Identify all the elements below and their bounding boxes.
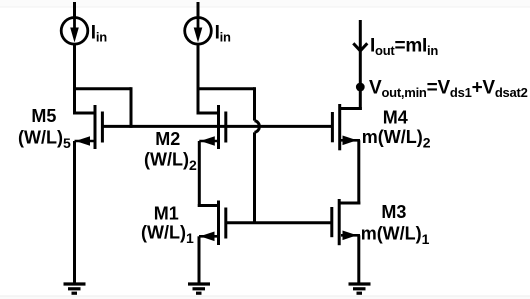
svg-text:(W/L)5: (W/L)5	[18, 128, 71, 152]
svg-text:M2: M2	[155, 129, 180, 149]
wire: M3 source down to ground	[357, 235, 360, 284]
current source I_in #2 (circle)	[185, 18, 212, 45]
transistor M2 channel bar	[217, 105, 220, 149]
wire: CS2 down to M2 drain node	[197, 44, 200, 115]
output current arrow (chevron)	[353, 43, 367, 51]
wire: M2 drain stub	[197, 112, 219, 115]
ground (middle)	[188, 284, 210, 293]
svg-text:M1: M1	[154, 203, 179, 223]
transistor M2 gate bar	[224, 112, 227, 143]
wire: output branch top	[359, 20, 362, 88]
svg-text:(W/L)1: (W/L)1	[141, 223, 194, 247]
wire: M4 source down to M3 drain	[357, 140, 360, 204]
wire: M5 diode loop right vertical	[130, 87, 133, 128]
wire: node X loop top horizontal	[197, 87, 255, 90]
transistor M5 channel bar	[94, 105, 97, 149]
wire: top stub into current source 1	[73, 2, 76, 18]
ground (left)	[64, 284, 86, 293]
wire: M5 drain stub	[73, 112, 95, 115]
wire: M2 source stub with arrow	[199, 136, 217, 146]
transistor M1 channel bar	[217, 201, 220, 246]
transistor M3 channel bar	[338, 199, 341, 245]
wire: node down to M4 drain stub	[359, 87, 362, 110]
wire: top stub into current source 2	[197, 2, 200, 18]
wire: M5 diode loop top horizontal	[73, 87, 131, 90]
wire: M1 drain stub	[198, 204, 219, 207]
wire: M5 source down to ground	[73, 141, 76, 284]
svg-text:Iout=mIin: Iout=mIin	[370, 36, 438, 59]
svg-text:Iin: Iin	[91, 23, 107, 45]
wire: M4 source stub with arrow	[341, 136, 360, 146]
wire: M4 drain stub	[340, 107, 362, 110]
transistor M1 gate bar	[224, 208, 227, 239]
current source I_in #1 arrow	[70, 18, 79, 43]
wire: CS1 to M5 drain node	[73, 44, 76, 115]
wire: gate line M5-M2-M4	[102, 125, 332, 128]
bottom faint edge	[0, 296, 530, 299]
node V_out,min (dot)	[356, 83, 365, 92]
svg-text:M5: M5	[31, 106, 56, 126]
svg-text:M3: M3	[381, 202, 406, 222]
current source I_in #2 arrow	[194, 18, 203, 43]
wire: M3 source stub with arrow	[341, 231, 360, 241]
ground (right)	[349, 284, 371, 293]
wire: node X vertical upper (down to hop)	[253, 87, 256, 120]
wire: M3 drain stub	[339, 202, 360, 205]
svg-text:m(W/L)1: m(W/L)1	[361, 224, 430, 248]
faint top edge tint	[0, 0, 530, 7]
svg-text:(W/L)2: (W/L)2	[144, 149, 197, 173]
transistor M4 channel bar	[338, 104, 341, 150]
wire: M1 source down to ground	[198, 236, 201, 284]
wire: gate line M1-M3	[226, 221, 332, 224]
wire: M2 source down to M1 drain	[198, 141, 201, 207]
svg-text:M4: M4	[383, 107, 408, 127]
svg-text:m(W/L)2: m(W/L)2	[362, 127, 431, 151]
wire: M5 source stub with arrow	[75, 136, 94, 146]
wire: hop arc over gate line	[255, 121, 260, 133]
current source I_in #1 (circle)	[61, 18, 88, 45]
wire: M1 source stub with arrow	[199, 232, 217, 242]
transistor M4 gate bar	[331, 112, 334, 142]
transistor M5 gate bar	[101, 112, 104, 143]
svg-text:Vout,min=Vds1+Vdsat2: Vout,min=Vds1+Vdsat2	[369, 78, 528, 101]
transistor M3 gate bar	[330, 207, 333, 237]
wire: node X vertical lower (hop down to M1 gate line)	[253, 132, 256, 222]
svg-text:Iin: Iin	[215, 23, 231, 45]
